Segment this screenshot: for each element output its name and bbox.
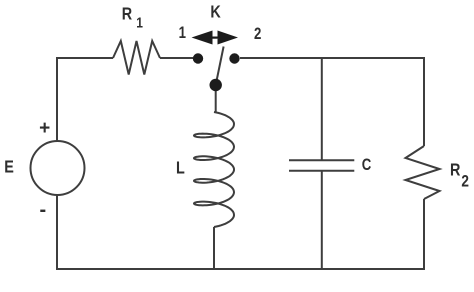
capacitor C bottom plate <box>289 170 354 172</box>
switch contact 2 dot <box>229 53 239 63</box>
svg-text:+: + <box>39 118 50 139</box>
resistor R2 <box>406 146 440 199</box>
switch direction arrow left <box>192 31 220 45</box>
wire R1 to switch contact 1 <box>160 57 193 59</box>
switch direction arrow right <box>211 31 239 45</box>
svg-text:1: 1 <box>136 14 143 31</box>
switch K lever <box>216 47 224 86</box>
voltage source E circle <box>31 141 85 195</box>
svg-text:K: K <box>210 2 221 22</box>
svg-text:L: L <box>176 158 185 178</box>
switch common pole dot <box>210 79 222 91</box>
svg-text:2: 2 <box>461 172 469 191</box>
svg-text:1: 1 <box>179 24 186 43</box>
wire capacitor branch upper <box>321 58 323 160</box>
svg-text:R: R <box>122 4 133 24</box>
inductor L coil <box>194 112 234 227</box>
svg-text:E: E <box>4 157 14 177</box>
svg-text:C: C <box>362 155 372 174</box>
svg-text:R: R <box>450 160 461 180</box>
wire top-left horizontal and left upper vertical <box>57 58 113 141</box>
capacitor C top plate <box>289 159 354 161</box>
wire capacitor branch lower <box>321 171 323 269</box>
wire switch common down to inductor <box>215 91 217 112</box>
wire contact 2 to top-right corner down to R2 <box>240 58 424 146</box>
wire bottom rail with left and right lower verticals <box>57 195 424 269</box>
resistor R1 <box>113 41 160 75</box>
svg-text:2: 2 <box>254 25 261 44</box>
switch contact 1 dot <box>193 53 203 63</box>
svg-text:-: - <box>40 199 47 221</box>
wire inductor bottom to bottom rail <box>213 227 215 269</box>
